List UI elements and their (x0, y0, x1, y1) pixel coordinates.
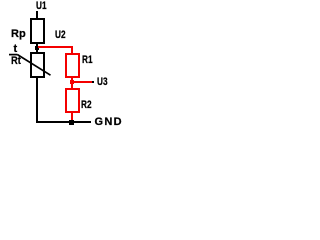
wire to R2 top (71, 84, 73, 88)
wire R1 bottom lead (71, 78, 73, 80)
wire Rt to ground rail (36, 78, 38, 123)
resistor Rp (30, 18, 45, 44)
label Rp (11, 30, 26, 38)
wire Rp to Rt (36, 44, 38, 52)
resistor R1 (65, 53, 80, 78)
label R1 (82, 56, 93, 64)
label Rt (11, 57, 21, 65)
node U2 label (55, 31, 66, 39)
label R2 (81, 101, 92, 109)
wire ground rail horizontal (36, 121, 91, 123)
label t (14, 45, 18, 53)
resistor R2 (65, 88, 80, 113)
wire net U3 black tip (92, 81, 94, 83)
node U3 label (97, 78, 108, 86)
node U1 label (36, 2, 47, 10)
thermistor t-bar and diagonal (0, 0, 129, 138)
node GND label (95, 118, 123, 126)
wire net U2 vertical to R1 (71, 46, 73, 53)
junction ground dot (69, 120, 74, 125)
wire R2 bottom lead (71, 113, 73, 121)
wire net U2 horizontal (38, 46, 73, 48)
junction node U3 dot (70, 80, 74, 84)
junction node U2 dot (35, 46, 39, 50)
wire net U3 horizontal (74, 81, 92, 83)
thermistor Rt (30, 52, 45, 78)
wire U1 lead (36, 11, 38, 18)
